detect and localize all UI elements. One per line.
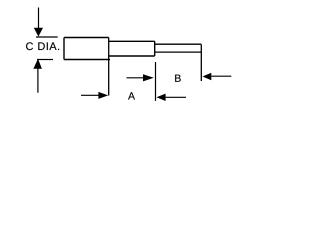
dimension C: bottom extension line [37,59,53,61]
small shaft outline [155,44,202,52]
dimension A: right arrow pointing left [157,94,187,101]
label C DIA. [26,42,59,50]
dimension B: right arrow pointing left [203,73,232,81]
shaft end cap and B right extension line [200,44,202,81]
dimension C: down arrow leader [34,8,43,37]
dimension A: left arrow pointing right [81,92,108,99]
A right / B left shared extension line [155,62,157,101]
step divider and A left extension line [108,38,110,96]
label A [128,92,135,99]
dimension C: top extension line [36,36,58,38]
dimension C: up arrow leader [33,59,42,93]
body large step outline [64,38,110,60]
label B [175,75,181,82]
dimension B: left arrow pointing right [127,74,154,81]
body middle step outline [109,41,155,56]
